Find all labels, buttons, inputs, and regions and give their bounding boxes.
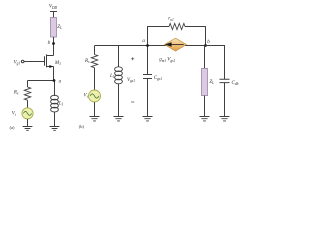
input terminal circle Vg1 — [21, 60, 24, 63]
svg-text:b: b — [207, 40, 210, 45]
svg-text:ZL: ZL — [57, 25, 62, 30]
wire Cdb to ground (b) — [224, 83, 226, 117]
impedance ZL (b) — [202, 68, 208, 95]
wire node b to Cdb — [206, 46, 225, 80]
node b dot (a) — [52, 42, 55, 45]
svg-text:Rs: Rs — [13, 90, 19, 95]
svg-text:(b): (b) — [79, 124, 85, 129]
svg-text:Cgs1: Cgs1 — [154, 76, 163, 81]
resistor Rs (b) — [91, 55, 97, 68]
transistor M1 source arrow — [49, 65, 53, 68]
ground (a) right — [50, 127, 60, 131]
label minus Vgs1 — [131, 101, 134, 103]
node b dot (b) — [204, 44, 207, 47]
ground (a) left — [23, 127, 33, 131]
node a dot (b) — [146, 44, 149, 47]
impedance ZL (a) — [51, 18, 57, 38]
svg-text:a: a — [142, 39, 145, 44]
wire node a horizontal — [28, 80, 55, 82]
svg-text:ro1: ro1 — [168, 17, 174, 22]
wire node b to ZL (b) — [204, 46, 206, 69]
ground (b) under Vi — [90, 117, 100, 121]
svg-text:VDD: VDD — [49, 5, 58, 10]
label plus Vgs1 — [131, 57, 134, 60]
svg-text:b: b — [48, 41, 51, 46]
resistor ro1 — [169, 23, 185, 29]
ground (b) under Cdb — [220, 117, 230, 121]
wire ZL to drain — [53, 37, 55, 56]
ground (b) under Cgs — [143, 117, 153, 121]
top wire (b) — [95, 45, 206, 47]
svg-text:M1: M1 — [54, 61, 61, 66]
svg-text:Vgs1: Vgs1 — [127, 78, 135, 83]
svg-text:a: a — [59, 79, 62, 84]
wire VDD to ZL — [53, 12, 55, 18]
inductor L1 (b) — [115, 67, 123, 84]
transistor M1 source lead — [47, 66, 54, 68]
svg-text:Rs: Rs — [84, 59, 90, 64]
source Vi (a) — [22, 108, 33, 119]
wire Vi to ground (a) — [27, 119, 29, 127]
gate wire — [24, 61, 45, 63]
inductor L1 (a) — [51, 95, 59, 112]
wire node a to Cgs (b) — [147, 46, 149, 75]
capacitor Cdb plates — [220, 79, 230, 82]
svg-text:Cdb: Cdb — [232, 81, 239, 86]
svg-text:gm1Vgs1: gm1Vgs1 — [159, 57, 175, 63]
transistor M1 channel bar — [46, 54, 48, 67]
dependent source arrow — [169, 44, 184, 46]
wire Cgs to ground (b) — [147, 79, 149, 117]
svg-text:Vi: Vi — [84, 94, 88, 99]
wire ZL to ground (b) — [204, 96, 206, 117]
svg-text:L1: L1 — [58, 101, 64, 106]
ground (b) under L1 — [114, 117, 124, 121]
svg-text:(a): (a) — [10, 125, 15, 130]
wire L to ground (a) — [54, 112, 56, 127]
transistor M1 gate bar — [44, 56, 46, 65]
wire top to Rs (b) — [94, 46, 96, 55]
wire node a to L (a) — [54, 81, 56, 97]
wire top to L1 (b) — [118, 46, 120, 68]
dependent source gm1Vgs1 diamond — [165, 38, 187, 51]
transistor M1 drain lead — [47, 55, 54, 57]
node a dot (a) — [53, 79, 56, 82]
wire Rs to Vi (b) — [94, 68, 96, 90]
wire Rs to Vi (a) — [27, 100, 29, 108]
ground (b) under ZL — [200, 117, 210, 121]
wire Vi to ground (b) — [94, 102, 96, 117]
wire node a down to Rs (a) — [27, 81, 29, 88]
source Vi (b) — [89, 90, 101, 102]
ro branch wires — [148, 27, 206, 46]
svg-text:L1: L1 — [109, 74, 115, 79]
svg-text:Vg1: Vg1 — [14, 60, 21, 65]
svg-text:ZL: ZL — [209, 80, 214, 85]
svg-text:Vi: Vi — [12, 112, 16, 117]
resistor Rs (a) — [24, 87, 30, 100]
capacitor Cgs plates — [143, 75, 152, 79]
wire L1 to ground (b) — [118, 84, 120, 117]
wire source to node a — [53, 67, 55, 81]
supply VDD bar — [50, 11, 57, 13]
